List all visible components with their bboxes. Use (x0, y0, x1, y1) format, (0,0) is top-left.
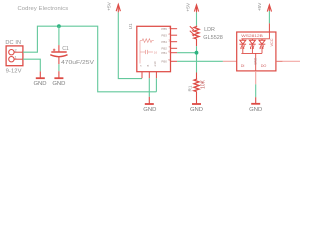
svg-text:+5V: +5V (185, 2, 191, 11)
WS2812B DO pin stub (276, 60, 283, 62)
wire DO out (pink) (283, 60, 300, 62)
capacitor C1 name (62, 46, 69, 52)
photoresistor LDR name (204, 27, 215, 33)
wire IC pin PB1 to LDR node (177, 52, 196, 54)
capacitor C1 value (61, 60, 95, 66)
svg-text:470uF/25V: 470uF/25V (61, 60, 95, 66)
svg-text:GND: GND (190, 107, 203, 113)
wire C1 top drop (58, 26, 60, 45)
wire LDR to R1 with junction (196, 46, 198, 72)
svg-text:PB0: PB0 (161, 59, 167, 63)
photoresistor LDR body (190, 26, 199, 39)
svg-text:x: x (139, 65, 143, 67)
svg-text:GND: GND (143, 107, 156, 113)
resistor R1 pin stub top (196, 73, 198, 79)
wire +5V to IC VCC pin (118, 12, 142, 78)
pin number 2 (15, 48, 17, 52)
svg-text:PB5: PB5 (161, 27, 167, 31)
wire IC GND pins to bottom rail (149, 78, 156, 92)
svg-text:9-12V: 9-12V (6, 69, 22, 75)
svg-text:DO: DO (261, 64, 267, 68)
resistor R1 name (187, 85, 192, 91)
power +5V label (WS2812B) (257, 2, 263, 11)
WS2812B GND pin stub (255, 71, 257, 84)
power +5V label (IC supply) (107, 1, 113, 10)
LED module pin label VCC (270, 38, 274, 46)
svg-text:PB1: PB1 (161, 51, 167, 55)
svg-text:8: 8 (146, 65, 150, 67)
svg-text:PB3: PB3 (161, 33, 167, 37)
connector J1 value 9-12V (6, 69, 22, 75)
svg-text:PB4: PB4 (161, 40, 167, 44)
wire +5V to WS2812B VCC (268, 11, 270, 23)
LED module pin label GND (253, 57, 257, 65)
wire WS2812B GND to ground (255, 84, 257, 97)
power +5V symbol (IC supply) (116, 4, 120, 12)
power +5V symbol (LDR) (194, 5, 198, 12)
IC U1 body (137, 26, 171, 71)
svg-text:16: 16 (154, 51, 158, 55)
svg-text:VCC: VCC (270, 38, 274, 46)
svg-text:e10: e10 (153, 61, 157, 66)
wire IC pin PB0 to WS2812B DI (177, 60, 223, 62)
junction node at C1 top (57, 24, 61, 28)
IC U1 internal capacitor glyph (140, 50, 157, 55)
IC U1 right pins (171, 29, 178, 62)
svg-text:DI: DI (241, 64, 245, 68)
svg-text:C1: C1 (62, 46, 69, 52)
svg-text:Codrey Electronics: Codrey Electronics (18, 6, 69, 12)
LED module D1 name WS2812B (241, 33, 263, 38)
capacitor C1 (50, 45, 67, 64)
svg-text:WS2812B: WS2812B (241, 33, 263, 38)
svg-text:2: 2 (15, 48, 17, 52)
ground GND (R1) (190, 92, 203, 114)
WS2812B VCC pin stub (268, 23, 270, 32)
IC U1 bottom pins (142, 72, 156, 79)
pin number 1 (15, 55, 17, 59)
wire DC_IN pin2 to top rail down to IC bottom rail (23, 26, 157, 92)
power +5V label (LDR) (185, 2, 191, 11)
wire DC_IN pin1 to ground (23, 59, 40, 71)
IC U1 internal resistor glyph (140, 39, 154, 43)
IC U1 right pin labels (161, 27, 167, 64)
connector J1 DC_IN label (5, 40, 21, 46)
IC U1 internal oscillator line (139, 41, 141, 64)
LED D-red (240, 39, 247, 54)
svg-text:LDR: LDR (204, 27, 215, 33)
svg-text:PB2: PB2 (161, 46, 167, 50)
ground GND (WS2812B) (249, 97, 262, 113)
title text (18, 6, 69, 12)
svg-text:GL5528: GL5528 (203, 35, 223, 41)
LED module pin label DI (241, 64, 245, 68)
LED module internal GND drop (255, 53, 257, 71)
power +5V symbol (WS2812B) (267, 5, 271, 12)
svg-text:GND: GND (253, 57, 257, 65)
wire LDR pin stub (196, 39, 198, 46)
svg-text:R1: R1 (187, 85, 192, 91)
LED module pin label DO (261, 64, 267, 68)
wire (pink stub) to WS2812B DI pin (223, 60, 237, 62)
junction node LDR/R1 divider (195, 51, 199, 55)
svg-text:GND: GND (249, 107, 262, 113)
LED module D1 WS2812B body (237, 32, 276, 71)
LED D-green (249, 39, 256, 54)
resistor R1 value (200, 79, 206, 89)
svg-text:1: 1 (15, 55, 17, 59)
LED module internal anode rail (241, 32, 269, 39)
svg-text:U1: U1 (128, 23, 134, 29)
resistor R1 body (194, 79, 199, 92)
svg-text:+5V: +5V (257, 2, 263, 11)
IC U1 name (128, 23, 134, 29)
LED D-blue (259, 39, 266, 54)
svg-text:10K: 10K (200, 79, 206, 89)
LED module internal cathode rail (241, 52, 262, 54)
svg-text:GND: GND (33, 81, 46, 87)
svg-text:+5V: +5V (107, 1, 113, 10)
svg-text:GND: GND (52, 81, 65, 87)
IC U1 bottom pin labels (139, 61, 157, 66)
wire C1 bottom to ground (58, 64, 60, 71)
ground GND (IC) (143, 92, 156, 113)
connector J1 DC_IN body (6, 46, 23, 66)
ground GND (C1) (52, 71, 65, 87)
wire +5V to LDR (196, 12, 198, 25)
ground GND (DC_IN) (33, 71, 46, 87)
photoresistor LDR value (203, 35, 223, 41)
IC U1 right pin numbers (168, 25, 170, 62)
